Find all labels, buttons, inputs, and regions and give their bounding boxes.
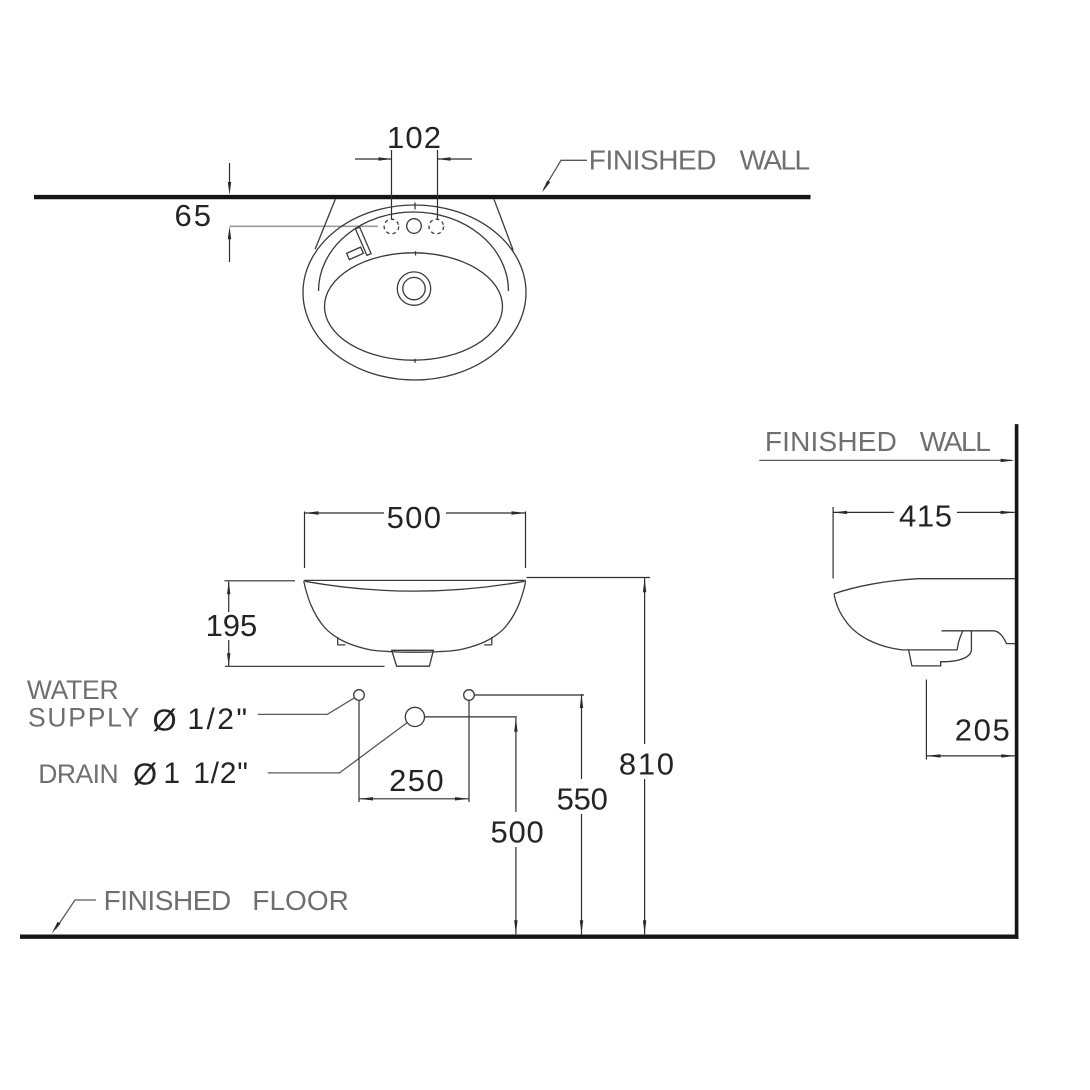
svg-text:WALL: WALL bbox=[740, 145, 811, 176]
svg-text:195: 195 bbox=[206, 608, 258, 643]
svg-text:102: 102 bbox=[387, 120, 441, 155]
svg-text:FINISHED: FINISHED bbox=[589, 145, 717, 176]
svg-text:205: 205 bbox=[955, 713, 1010, 748]
svg-text:500: 500 bbox=[387, 500, 441, 535]
svg-text:1/2": 1/2" bbox=[193, 757, 248, 790]
svg-text:Ø: Ø bbox=[133, 757, 157, 792]
svg-text:250: 250 bbox=[389, 763, 444, 798]
svg-text:FINISHED: FINISHED bbox=[104, 885, 232, 916]
svg-text:FLOOR: FLOOR bbox=[252, 885, 349, 916]
svg-text:810: 810 bbox=[619, 746, 674, 781]
svg-text:1/2": 1/2" bbox=[187, 703, 247, 736]
svg-text:DRAIN: DRAIN bbox=[38, 759, 118, 789]
svg-text:415: 415 bbox=[899, 499, 952, 534]
svg-text:550: 550 bbox=[557, 781, 608, 816]
svg-text:WATER: WATER bbox=[27, 675, 119, 705]
svg-text:WALL: WALL bbox=[920, 426, 991, 457]
svg-text:FINISHED: FINISHED bbox=[765, 426, 897, 457]
svg-text:Ø: Ø bbox=[153, 703, 177, 738]
svg-text:SUPPLY: SUPPLY bbox=[28, 703, 140, 733]
svg-text:500: 500 bbox=[491, 814, 544, 849]
svg-text:1: 1 bbox=[163, 757, 180, 790]
